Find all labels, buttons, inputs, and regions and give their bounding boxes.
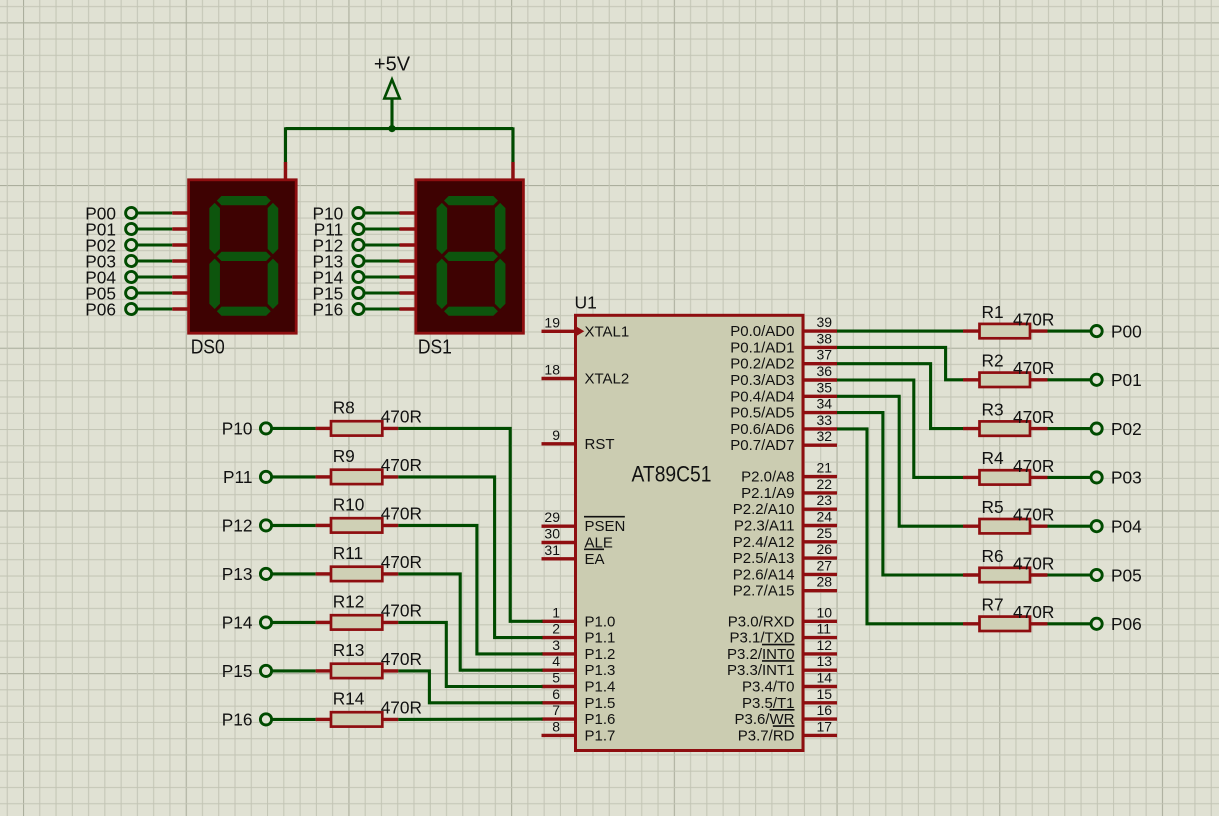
svg-text:P2.5/A13: P2.5/A13 (733, 550, 795, 567)
svg-text:2: 2 (552, 621, 560, 637)
svg-text:24: 24 (817, 509, 833, 525)
svg-text:R8: R8 (333, 397, 355, 417)
pin 31 EA stub (542, 557, 577, 560)
svg-text:P15: P15 (222, 661, 253, 681)
terminal P04 (1091, 517, 1142, 537)
terminal P13 (222, 564, 272, 584)
svg-text:38: 38 (817, 330, 833, 346)
pin 29 PSEN stub (542, 525, 577, 528)
display DS1 segment A (444, 196, 498, 205)
svg-text:P1.0: P1.0 (585, 613, 616, 630)
pin display P01 stub (172, 227, 190, 230)
pin 33 P0.6/AD6 stub (803, 427, 838, 430)
svg-text:470R: 470R (1013, 553, 1054, 573)
wire P0.2 to R3 (837, 364, 963, 429)
svg-text:P16: P16 (312, 299, 343, 319)
pin 32 P0.7/AD7 stub (803, 444, 838, 447)
wire P15 to display (365, 291, 400, 294)
svg-text:5: 5 (552, 670, 560, 686)
label R10 value 470R (381, 504, 422, 524)
svg-text:P0.5/AD5: P0.5/AD5 (730, 405, 794, 422)
svg-text:P0.0/AD0: P0.0/AD0 (730, 323, 794, 340)
svg-text:P1.1: P1.1 (585, 630, 616, 647)
svg-text:470R: 470R (1013, 602, 1054, 622)
resistor R10 (316, 518, 399, 532)
terminal P15 (312, 283, 364, 303)
wire P13 to display (365, 259, 400, 262)
svg-text:11: 11 (817, 621, 832, 637)
svg-text:P16: P16 (222, 710, 253, 730)
wire P14 to display (365, 275, 400, 278)
wire P10 to display (365, 211, 400, 214)
svg-text:23: 23 (817, 492, 833, 508)
pin DS0 common anode stub (284, 162, 287, 182)
pin name P1.0 (585, 613, 616, 630)
pin number 13 (817, 653, 833, 669)
pin name P0.6/AD6 (730, 421, 794, 438)
pin name P1.3 (585, 662, 616, 679)
wire P00 to display (138, 211, 173, 214)
svg-text:R1: R1 (982, 302, 1004, 322)
svg-text:P3.7/RD: P3.7/RD (738, 727, 795, 744)
terminal P16 (222, 710, 272, 730)
pin 23 P2.2/A10 stub (803, 508, 838, 511)
terminal P05 (85, 283, 137, 303)
label AT89C51 value (632, 461, 712, 486)
pin number 8 (552, 718, 560, 734)
svg-text:28: 28 (817, 574, 833, 590)
pin 30 ALE stub (542, 541, 577, 544)
pin number 14 (817, 670, 833, 686)
display DS1 body (416, 180, 524, 333)
pin 18 XTAL2 stub (542, 377, 577, 380)
pin name RST (585, 436, 615, 453)
terminal P03 (85, 251, 137, 271)
svg-text:8: 8 (552, 718, 560, 734)
pin display P15 stub (400, 291, 418, 294)
pin display P14 stub (400, 275, 418, 278)
label R9 value 470R (381, 455, 422, 475)
display DS0 segment A (217, 196, 271, 205)
display DS1 segment D (444, 307, 498, 316)
terminal P14 (312, 267, 364, 287)
wire P16 to display (365, 307, 400, 310)
svg-text:12: 12 (817, 637, 833, 653)
svg-text:DS0: DS0 (191, 337, 225, 359)
terminal P06 (1091, 614, 1142, 634)
label R3 (982, 399, 1004, 419)
pin number 10 (817, 604, 833, 620)
terminal P16 (312, 299, 364, 319)
svg-text:470R: 470R (381, 601, 422, 621)
terminal P11 (223, 467, 272, 487)
label R6 value 470R (1013, 553, 1054, 573)
pin number 7 (552, 702, 560, 718)
wire P11 to R9 (271, 475, 315, 478)
wire P03 to display (138, 259, 173, 262)
svg-text:P05: P05 (1111, 565, 1142, 585)
pin number 16 (817, 702, 833, 718)
pin 35 P0.4/AD4 stub (803, 395, 838, 398)
pin name P0.0/AD0 (730, 323, 794, 340)
svg-text:33: 33 (817, 412, 833, 428)
label R2 value 470R (1013, 358, 1054, 378)
svg-text:R13: R13 (333, 640, 365, 660)
label R12 (333, 591, 365, 611)
terminal P10 (312, 203, 364, 223)
junction +5V node (388, 125, 395, 132)
wire P04 to display (138, 275, 173, 278)
label R11 value 470R (381, 552, 422, 572)
svg-text:35: 35 (817, 379, 833, 395)
pin 14 P3.4/T0 stub (803, 685, 838, 688)
svg-text:P1.6: P1.6 (585, 711, 616, 728)
pin number 27 (817, 557, 833, 573)
pin display P04 stub (172, 275, 190, 278)
pin display P13 stub (400, 259, 418, 262)
terminal P15 (222, 661, 272, 681)
terminal P14 (222, 613, 272, 633)
pin name ALE (585, 535, 613, 552)
pin display P11 stub (400, 227, 418, 230)
wire P15 to R13 (271, 669, 315, 672)
svg-text:P3.4/T0: P3.4/T0 (742, 679, 795, 696)
svg-text:10: 10 (817, 604, 833, 620)
svg-text:470R: 470R (381, 698, 422, 718)
svg-text:P0.3/AD3: P0.3/AD3 (730, 372, 794, 389)
display DS0 segment F (209, 203, 220, 254)
clock input marker XTAL1 (577, 327, 584, 336)
pin number 35 (817, 379, 833, 395)
svg-text:+5V: +5V (374, 54, 411, 76)
pin 24 P2.3/A11 stub (803, 524, 838, 527)
wire R4 to terminal P03 (1048, 476, 1092, 479)
wire +5V rail horizontal (286, 127, 514, 130)
pin number 5 (552, 670, 560, 686)
label R5 (982, 497, 1004, 517)
power +5V symbol (384, 80, 399, 129)
svg-text:P04: P04 (1111, 517, 1142, 537)
pin name P3.5/T1 (742, 695, 795, 712)
svg-text:P1.3: P1.3 (585, 662, 616, 679)
label DS0 (191, 337, 225, 359)
pin 13 P3.3/INT1 stub (803, 669, 838, 672)
svg-text:R14: R14 (333, 688, 365, 708)
resistor R12 (316, 615, 399, 629)
terminal P12 (222, 516, 272, 536)
pin 16 P3.6/WR stub (803, 717, 838, 720)
resistor R7 (963, 617, 1048, 631)
svg-text:470R: 470R (1013, 310, 1054, 330)
svg-text:R7: R7 (982, 595, 1004, 615)
pin display P03 stub (172, 259, 190, 262)
svg-text:P0.7/AD7: P0.7/AD7 (730, 437, 794, 454)
pin name P3.2/INT0 (727, 645, 795, 663)
svg-text:15: 15 (817, 686, 833, 702)
svg-text:P00: P00 (1111, 321, 1142, 341)
pin 6 P1.5 stub (542, 701, 577, 704)
svg-text:R3: R3 (982, 399, 1004, 419)
wire R6 to terminal P05 (1048, 573, 1092, 576)
pin name PSEN (584, 517, 625, 536)
svg-text:P03: P03 (1111, 468, 1142, 488)
terminal P06 (85, 299, 137, 319)
svg-text:P1.5: P1.5 (585, 695, 616, 712)
pin display P06 stub (172, 307, 190, 310)
wire +5V to DS1 (511, 127, 514, 162)
svg-text:EA: EA (585, 551, 605, 568)
pin number 24 (817, 509, 833, 525)
wire P0.1 to R2 (837, 347, 963, 379)
svg-text:470R: 470R (381, 504, 422, 524)
wire P10 to R8 (271, 427, 315, 430)
svg-text:P2.7/A15: P2.7/A15 (733, 583, 795, 600)
resistor R4 (963, 470, 1048, 484)
chip U1 AT89C51 body (576, 315, 804, 750)
pin 34 P0.5/AD5 stub (803, 411, 838, 414)
pin number 11 (817, 621, 832, 637)
svg-text:RST: RST (585, 436, 615, 453)
svg-text:470R: 470R (381, 407, 422, 427)
pin display P16 stub (400, 307, 418, 310)
terminal P13 (312, 251, 364, 271)
wire R9 to P1.1 (398, 477, 542, 638)
label R7 value 470R (1013, 602, 1054, 622)
label R7 (982, 595, 1004, 615)
svg-text:R9: R9 (333, 446, 355, 466)
label R8 value 470R (381, 407, 422, 427)
display DS0 segment B (268, 203, 279, 254)
wire R10 to P1.2 (398, 525, 542, 654)
svg-text:39: 39 (817, 314, 833, 330)
svg-text:4: 4 (552, 653, 560, 669)
pin number 26 (817, 541, 833, 557)
svg-text:P3.3/INT1: P3.3/INT1 (727, 662, 795, 679)
pin 5 P1.4 stub (542, 685, 577, 688)
pin name XTAL1 (585, 323, 630, 340)
pin number 4 (552, 653, 560, 669)
svg-text:470R: 470R (381, 455, 422, 475)
pin name P2.1/A9 (741, 485, 794, 502)
svg-text:P2.3/A11: P2.3/A11 (734, 518, 795, 535)
wire R1 to terminal P00 (1048, 330, 1092, 333)
svg-text:22: 22 (817, 476, 833, 492)
svg-text:P2.1/A9: P2.1/A9 (741, 485, 794, 502)
terminal P00 (1091, 321, 1142, 341)
pin 12 P3.2/INT0 stub (803, 652, 838, 655)
svg-text:21: 21 (817, 460, 833, 476)
wire P16 to R14 (271, 718, 315, 721)
wire P11 to display (365, 227, 400, 230)
svg-text:P2.6/A14: P2.6/A14 (733, 566, 795, 583)
display DS0 body (189, 180, 297, 333)
pin number 12 (817, 637, 833, 653)
resistor R2 (963, 373, 1048, 387)
terminal P03 (1091, 468, 1142, 488)
pin name XTAL2 (585, 371, 630, 388)
svg-text:29: 29 (544, 509, 560, 525)
terminal P01 (1091, 370, 1142, 390)
pin name P1.2 (585, 646, 616, 663)
svg-text:P06: P06 (1111, 614, 1142, 634)
svg-text:9: 9 (552, 427, 560, 443)
terminal P02 (1091, 419, 1142, 439)
svg-text:P0.4/AD4: P0.4/AD4 (730, 388, 794, 405)
wire P06 to display (138, 307, 173, 310)
label R4 value 470R (1013, 456, 1054, 476)
pin 36 P0.3/AD3 stub (803, 378, 838, 381)
svg-text:17: 17 (817, 718, 833, 734)
pin name P0.2/AD2 (730, 356, 794, 373)
display DS1 segment G (444, 252, 498, 261)
svg-text:R10: R10 (333, 494, 365, 514)
svg-text:16: 16 (817, 702, 833, 718)
pin 27 P2.6/A14 stub (803, 573, 838, 576)
wire P0.5 to R6 (837, 413, 963, 575)
display DS0 segment G (217, 252, 271, 261)
label U1 reference (575, 293, 597, 313)
svg-text:19: 19 (544, 314, 560, 330)
svg-text:P1.4: P1.4 (585, 679, 616, 696)
wire R3 to terminal P02 (1048, 427, 1092, 430)
svg-text:27: 27 (817, 557, 833, 573)
label R1 value 470R (1013, 310, 1054, 330)
resistor R13 (316, 664, 399, 678)
pin name P3.1/TXD (729, 630, 794, 647)
wire P14 to R12 (271, 621, 315, 624)
wire P0.4 to R5 (837, 396, 963, 526)
pin number 2 (552, 621, 560, 637)
pin name P2.0/A8 (741, 469, 794, 486)
svg-text:37: 37 (817, 347, 833, 363)
label R2 (982, 351, 1004, 371)
svg-text:AT89C51: AT89C51 (632, 461, 712, 486)
wire P05 to display (138, 291, 173, 294)
pin name P1.4 (585, 679, 616, 696)
label R13 (333, 640, 365, 660)
svg-text:470R: 470R (381, 649, 422, 669)
terminal P00 (85, 203, 137, 223)
pin 26 P2.5/A13 stub (803, 556, 838, 559)
pin name P1.1 (585, 630, 616, 647)
label R3 value 470R (1013, 407, 1054, 427)
pin name P0.5/AD5 (730, 405, 794, 422)
label R4 (982, 448, 1004, 468)
svg-text:6: 6 (552, 686, 560, 702)
pin number 23 (817, 492, 833, 508)
svg-text:14: 14 (817, 670, 833, 686)
svg-text:R6: R6 (982, 546, 1004, 566)
svg-text:470R: 470R (1013, 407, 1054, 427)
pin 22 P2.1/A9 stub (803, 491, 838, 494)
svg-text:P0.1/AD1: P0.1/AD1 (730, 339, 794, 356)
display DS0 segment C (268, 259, 279, 309)
display DS1 segment E (437, 259, 448, 309)
svg-text:1: 1 (552, 604, 560, 620)
pin number 9 (552, 427, 560, 443)
svg-text:P2.2/A10: P2.2/A10 (733, 501, 795, 518)
svg-text:R4: R4 (982, 448, 1004, 468)
svg-text:26: 26 (817, 541, 833, 557)
pin name P2.6/A14 (733, 566, 795, 583)
pin name P2.7/A15 (733, 583, 795, 600)
display DS0 segment E (209, 259, 220, 309)
label R6 (982, 546, 1004, 566)
svg-text:R2: R2 (982, 351, 1004, 371)
pin number 25 (817, 525, 833, 541)
pin 28 P2.7/A15 stub (803, 589, 838, 592)
terminal P05 (1091, 565, 1142, 585)
resistor R5 (963, 519, 1048, 533)
label R14 (333, 688, 365, 708)
display DS1 segment F (437, 203, 448, 254)
wire R8 to P1.0 (398, 428, 542, 621)
svg-text:P14: P14 (222, 613, 253, 633)
pin name P1.6 (585, 711, 616, 728)
wire R5 to terminal P04 (1048, 525, 1092, 528)
pin number 18 (544, 362, 560, 378)
pin 17 P3.7/RD stub (803, 734, 838, 737)
pin name P3.7/RD (738, 726, 795, 744)
wire P12 to display (365, 243, 400, 246)
pin number 15 (817, 686, 833, 702)
label R12 value 470R (381, 601, 422, 621)
pin number 29 (544, 509, 560, 525)
pin number 33 (817, 412, 833, 428)
svg-text:P01: P01 (1111, 370, 1142, 390)
pin 38 P0.1/AD1 stub (803, 346, 838, 349)
label R8 (333, 397, 355, 417)
pin number 3 (552, 637, 560, 653)
svg-text:P3.0/RXD: P3.0/RXD (728, 613, 795, 630)
wire R13 to P1.5 (398, 671, 542, 703)
svg-text:P2.0/A8: P2.0/A8 (741, 469, 794, 486)
svg-text:R12: R12 (333, 591, 365, 611)
pin 10 P3.0/RXD stub (803, 620, 838, 623)
wire P12 to R10 (271, 524, 315, 527)
terminal P11 (314, 219, 364, 239)
wire R2 to terminal P01 (1048, 378, 1092, 381)
display DS0 segment D (217, 307, 271, 316)
wire +5V to DS0 (284, 127, 287, 162)
svg-text:18: 18 (544, 362, 560, 378)
pin number 22 (817, 476, 833, 492)
pin name EA (584, 549, 605, 568)
svg-text:30: 30 (544, 526, 560, 542)
pin 7 P1.6 stub (542, 717, 577, 720)
svg-text:34: 34 (817, 396, 833, 412)
power +5V label (374, 54, 411, 76)
svg-text:U1: U1 (575, 293, 597, 313)
svg-text:470R: 470R (1013, 358, 1054, 378)
wire P02 to display (138, 243, 173, 246)
pin name P2.3/A11 (734, 518, 795, 535)
svg-text:P0.6/AD6: P0.6/AD6 (730, 421, 794, 438)
pin 8 P1.7 stub (542, 734, 577, 737)
wire R11 to P1.3 (398, 574, 542, 670)
pin 11 P3.1/TXD stub (803, 636, 838, 639)
display DS1 segment C (495, 259, 506, 309)
pin name P3.3/INT1 (727, 661, 795, 679)
terminal P12 (312, 235, 364, 255)
svg-text:7: 7 (552, 702, 560, 718)
resistor R14 (316, 712, 399, 726)
resistor R11 (316, 567, 399, 581)
svg-text:470R: 470R (381, 552, 422, 572)
terminal P01 (85, 219, 137, 239)
pin number 36 (817, 363, 833, 379)
pin number 38 (817, 330, 833, 346)
